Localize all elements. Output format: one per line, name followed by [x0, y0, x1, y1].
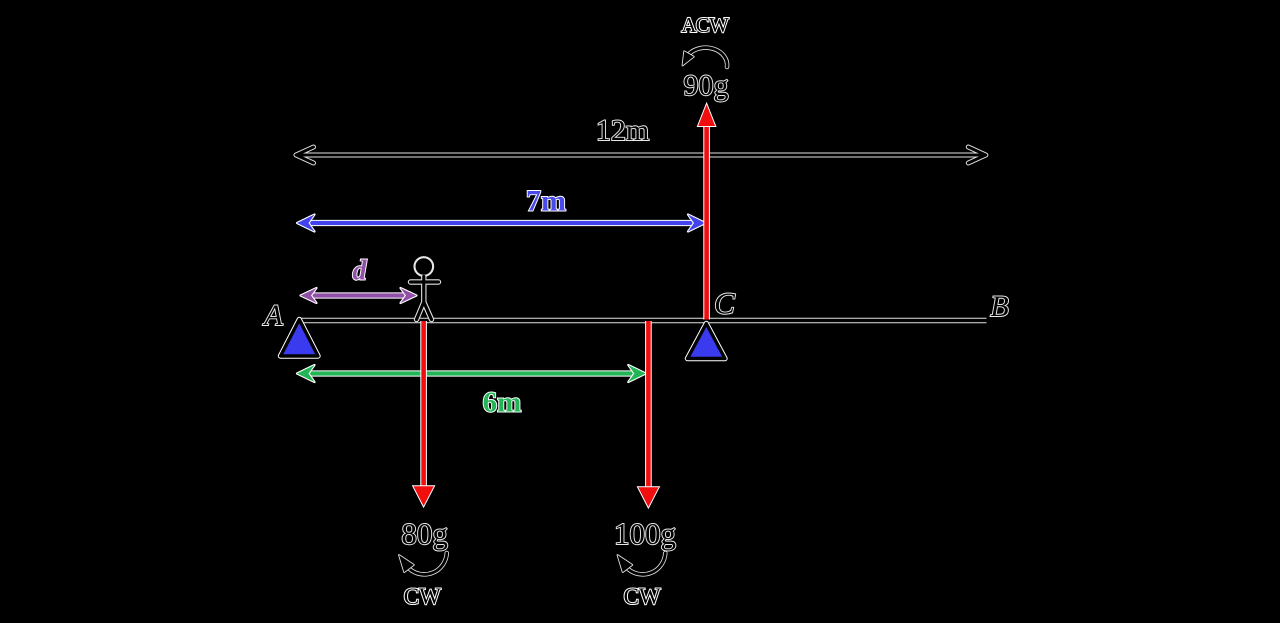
person [411, 257, 439, 319]
svg-text:A: A [262, 299, 283, 332]
svg-text:100g: 100g [614, 516, 676, 551]
svg-text:CW: CW [404, 584, 441, 609]
svg-text:12m: 12m [596, 114, 649, 147]
ACW rotation arc [683, 48, 728, 67]
svg-text:B: B [990, 290, 1008, 323]
dimension arrow 12m [296, 147, 986, 163]
force arrow 90g (up at C) [698, 105, 715, 320]
svg-text:90g: 90g [684, 69, 729, 102]
beam AB [299, 318, 987, 323]
CW rotation arc right [618, 553, 666, 574]
force arrow 80g (down) [413, 321, 433, 506]
dimension arrow d [301, 288, 417, 303]
svg-text:ACW: ACW [681, 13, 729, 37]
svg-text:CW: CW [624, 584, 661, 609]
svg-text:6m: 6m [483, 387, 522, 419]
support C (pivot triangle) [688, 324, 726, 359]
dimension arrow 7m [297, 215, 706, 232]
svg-text:80g: 80g [401, 516, 448, 551]
support A (pivot triangle) [281, 320, 319, 357]
svg-text:d: d [353, 256, 368, 287]
svg-text:7m: 7m [526, 185, 566, 218]
svg-text:C: C [714, 286, 735, 321]
dimension arrow 6m [297, 365, 646, 382]
CW rotation arc left [399, 553, 447, 574]
force arrow 100g (down) [638, 321, 658, 507]
